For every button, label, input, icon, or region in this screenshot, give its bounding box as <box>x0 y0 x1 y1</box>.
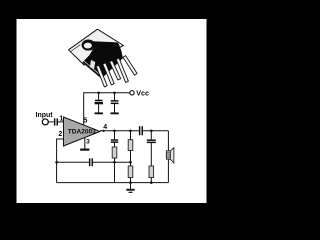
capacitor chain C <box>147 139 156 143</box>
wire C1 to pin1 <box>58 121 64 123</box>
svg-text:4: 4 <box>103 124 107 131</box>
leg pin3 <box>110 61 121 80</box>
junction ground node on bottom rail <box>129 181 132 184</box>
leg pin1 <box>96 65 107 87</box>
wire bottom rail <box>57 182 169 184</box>
capacitor C3 supply electrolytic <box>95 100 103 115</box>
leg pin2 <box>103 63 114 85</box>
wire ground lead <box>130 183 132 189</box>
resistor chain C <box>149 166 154 178</box>
junction chain A on output wire <box>113 130 116 133</box>
wire feedback left <box>57 161 89 163</box>
wire chain A <box>114 131 116 140</box>
svg-text:1: 1 <box>59 115 63 122</box>
wire Cout to speaker <box>143 130 168 132</box>
capacitor Cout output <box>139 126 143 135</box>
wire speaker drop <box>167 131 169 183</box>
package metal tab <box>69 29 124 65</box>
resistor chain A <box>112 147 117 158</box>
junction chain C on output wire <box>150 130 153 133</box>
op-amp U1 TDA2003 <box>64 117 101 146</box>
wire pin5 riser <box>83 92 85 125</box>
TDA2003 TO-220 package illustration <box>69 29 124 78</box>
wire top supply rail <box>84 92 130 94</box>
speaker LS1 <box>166 148 174 163</box>
wire C3 leads <box>98 93 100 100</box>
body bottom edge highlight <box>84 61 103 77</box>
svg-text:TDA2003: TDA2003 <box>68 129 96 136</box>
junction chain A on feedback wire <box>113 161 116 164</box>
schematic wires <box>48 92 168 189</box>
tab top-face inner edge <box>71 45 81 52</box>
resistor chain B lower <box>128 166 133 178</box>
leg pin4 <box>116 58 128 82</box>
junction C3 on supply rail <box>97 92 100 95</box>
wire chain C <box>150 131 152 140</box>
svg-text:3: 3 <box>86 138 90 145</box>
package legs (5 pins) <box>96 56 137 87</box>
junction chain B on output wire <box>129 130 132 133</box>
leg pin5 <box>123 56 137 76</box>
capacitor C4 supply <box>111 100 119 114</box>
body notch step <box>90 60 96 69</box>
junction C4 on supply rail <box>113 92 116 95</box>
capacitor chain A <box>111 139 118 143</box>
package plastic body <box>83 42 123 79</box>
wire pin3 to ground <box>84 138 86 149</box>
tab mounting hole <box>82 40 96 51</box>
svg-text:Vcc: Vcc <box>136 88 149 97</box>
svg-text:2: 2 <box>58 131 62 138</box>
svg-text:5: 5 <box>83 115 87 124</box>
wire input terminal to C1 <box>48 121 54 123</box>
svg-text:Input: Input <box>36 112 54 119</box>
Vcc terminal <box>130 91 134 95</box>
white paper box <box>17 19 207 203</box>
input terminal <box>42 119 48 125</box>
capacitor C2 feedback <box>89 158 93 166</box>
ground main <box>126 189 134 193</box>
junction pin2 feedback node <box>55 161 58 164</box>
resistor chain B upper <box>128 140 133 151</box>
junction pin4 output node <box>102 130 104 132</box>
wire output to Cout <box>100 130 139 132</box>
wire feedback right <box>93 161 131 163</box>
ground pin3 <box>80 149 89 151</box>
wire chain B <box>130 131 132 140</box>
junction chain C on bottom rail <box>150 181 153 184</box>
junction chain B on feedback wire <box>129 161 132 164</box>
capacitor C1 input coupling <box>54 118 58 125</box>
wire pin2 stub <box>57 139 64 183</box>
wire C4 leads <box>114 93 116 101</box>
